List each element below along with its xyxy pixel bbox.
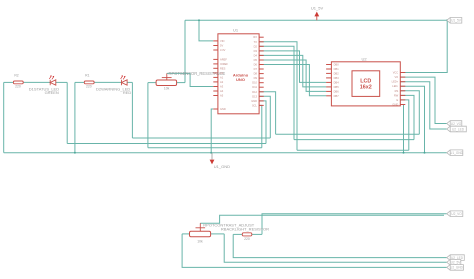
svg-text:U2: U2	[361, 57, 367, 62]
svg-text:10k: 10k	[197, 240, 203, 244]
svg-text:A3: A3	[220, 85, 224, 89]
svg-text:IOREF: IOREF	[220, 62, 228, 66]
svg-text:D3: D3	[254, 49, 258, 53]
svg-text:TX: TX	[254, 40, 258, 44]
svg-text:GND: GND	[251, 99, 257, 103]
svg-text:RS: RS	[395, 89, 399, 93]
svg-text:D4: D4	[254, 53, 258, 57]
svg-text:DB1: DB1	[334, 67, 340, 71]
svg-text:RPOTSENSOR_RESISTANCE: RPOTSENSOR_RESISTANCE	[169, 71, 226, 76]
svg-text:DB7: DB7	[334, 94, 340, 98]
svg-text:AREF: AREF	[220, 57, 227, 61]
svg-text:UNO: UNO	[236, 77, 245, 82]
svg-text:U2_LED: U2_LED	[451, 256, 464, 260]
svg-text:RX: RX	[253, 35, 257, 39]
svg-text:U1_GND: U1_GND	[214, 164, 230, 169]
svg-text:GREEN: GREEN	[45, 90, 59, 95]
svg-text:RED: RED	[123, 90, 132, 95]
svg-text:GND: GND	[220, 107, 226, 111]
svg-text:A1: A1	[220, 75, 224, 79]
svg-text:A0: A0	[220, 71, 224, 75]
svg-text:220: 220	[15, 84, 21, 88]
svg-text:LED-: LED-	[392, 84, 398, 88]
svg-text:RBACKLIGHT_RESISTOR: RBACKLIGHT_RESISTOR	[221, 227, 269, 232]
svg-text:A4: A4	[220, 89, 224, 93]
svg-text:D6: D6	[254, 63, 258, 67]
svg-text:10k: 10k	[164, 87, 170, 91]
svg-text:U2_VO: U2_VO	[451, 122, 462, 126]
svg-text:DB3: DB3	[334, 76, 340, 80]
svg-text:DB0: DB0	[334, 63, 340, 67]
svg-text:U2_LED: U2_LED	[452, 127, 465, 131]
svg-text:3.3V: 3.3V	[220, 48, 226, 52]
svg-text:RES: RES	[220, 66, 226, 70]
svg-text:LED+: LED+	[392, 80, 399, 84]
svg-text:DB4: DB4	[334, 80, 340, 84]
svg-text:VCC: VCC	[393, 71, 399, 75]
svg-text:U2_5V: U2_5V	[451, 261, 462, 265]
svg-text:SCL: SCL	[252, 103, 258, 107]
svg-text:A5: A5	[220, 94, 224, 98]
svg-text:5V: 5V	[220, 44, 223, 48]
svg-text:GND: GND	[392, 103, 398, 107]
svg-text:U1: U1	[233, 28, 239, 33]
svg-text:D8: D8	[254, 72, 258, 76]
svg-text:U1_GND: U1_GND	[450, 151, 464, 155]
svg-text:DB2: DB2	[334, 71, 340, 75]
svg-text:U2_GND: U2_GND	[450, 266, 464, 270]
svg-text:VIN: VIN	[220, 39, 224, 43]
svg-text:220: 220	[86, 84, 92, 88]
svg-text:D10: D10	[252, 81, 257, 85]
svg-text:VO: VO	[394, 75, 398, 79]
svg-text:D2: D2	[254, 44, 258, 48]
svg-text:D9: D9	[254, 76, 258, 80]
svg-text:R2: R2	[14, 73, 18, 77]
svg-text:DB5: DB5	[334, 85, 340, 89]
svg-text:16x2: 16x2	[360, 85, 372, 91]
svg-text:D5: D5	[254, 58, 258, 62]
svg-text:D7: D7	[254, 67, 258, 71]
svg-text:RW: RW	[394, 93, 399, 97]
svg-text:220: 220	[244, 237, 250, 241]
svg-text:U1_5V: U1_5V	[311, 6, 324, 11]
svg-text:D12: D12	[252, 90, 257, 94]
svg-text:E: E	[396, 98, 398, 102]
svg-text:A2: A2	[220, 80, 224, 84]
svg-text:R1: R1	[85, 73, 89, 77]
svg-text:D11: D11	[252, 85, 257, 89]
svg-text:U2_VO: U2_VO	[451, 212, 462, 216]
svg-text:D13: D13	[252, 94, 257, 98]
svg-text:U1_5V: U1_5V	[451, 19, 462, 23]
svg-text:DB6: DB6	[334, 89, 340, 93]
